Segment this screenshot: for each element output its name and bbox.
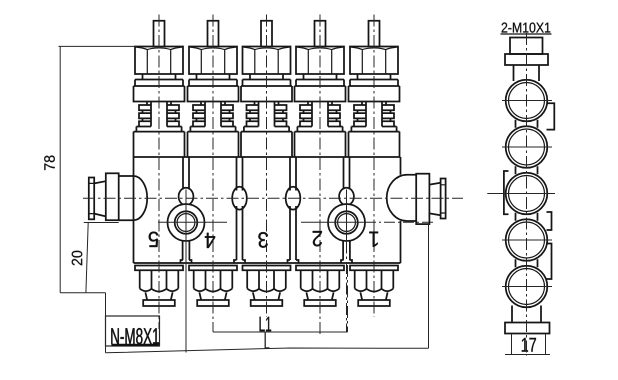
spindle teardrop at midpoint 4 [339,188,354,206]
text 78 (rotated) [44,156,55,171]
connector between L1 line and outer bracket [265,332,269,348]
crosshair port circle 1 [158,221,227,223]
port circle at midpoint 4 : outer [328,204,365,241]
neck between bores 2 and 3 [516,166,538,174]
midpoint 1 extension line below manifold [185,242,187,353]
text L1 [260,317,272,331]
left side fitting taper [94,181,106,216]
side view bore circle 4 outer [506,219,548,261]
side view bottom plate [505,323,550,334]
crosshair bore 5 [502,286,552,288]
neck between bores 1 and 2 [516,120,538,128]
crosshair port circle 2 [301,221,365,223]
right side fitting dome [387,175,417,221]
right side fitting flange lip lines [441,185,446,213]
side view bottom neck [512,306,541,323]
midpoint 4 centerline below manifold [346,242,348,333]
text 20 (rotated) [72,251,83,266]
port circle at midpoint 4 : middle ring [335,211,358,234]
manifold block [134,157,401,263]
dimension 78 extension line top [59,45,136,47]
valve unit 1 hex facets [351,47,398,74]
section number 2 (rotated 180) [313,231,322,246]
manifold right edge (broken at dome) [400,157,402,263]
spindle foot at midpoint 2 [234,260,245,263]
left side fitting flange [89,178,94,220]
side tab right upper [547,103,555,129]
dimension 17 extension lines [512,334,546,355]
valve unit 2 hex facets [297,47,344,74]
centerline valve 2 [319,15,321,336]
outer bracket riser to right fitting [428,224,430,348]
spindle foot at midpoint 1 [181,260,192,263]
leader vertical to N-M8X1 box [105,293,107,353]
crosshair bore 3 [487,193,555,195]
centerline valve 5 [158,15,160,330]
N-M8X1 label underline [111,344,158,346]
right side fitting flange [441,179,446,219]
neck between bores 4 and 5 [516,259,538,267]
port circle at midpoint 4 : inner [338,214,356,232]
crosshair bore 1 [502,100,552,102]
section number 4 (rotated 180) [205,233,215,248]
side view bore circle 1 inner [509,83,545,119]
port circle at midpoint 1 : inner [177,214,195,232]
spindle teardrop at midpoint 1 [179,188,194,206]
valve unit 2 body [295,21,346,157]
text 17 [522,338,536,352]
side view vertical centerline [526,33,528,356]
outer bracket dimension line [106,348,429,353]
centerline valve 4 [212,15,214,333]
valve unit 5 hex facets [136,47,183,74]
section divider / spindle stem pair at midpoint 3 [290,157,296,260]
L1 right riser [347,265,349,332]
neck between bores 3 and 4 [516,213,538,221]
side view bore circle 5 inner [509,269,545,305]
side view top boss [510,38,543,55]
side view bore circle 3 inner [509,176,545,212]
section divider / spindle stem pair at midpoint 1 [183,157,190,260]
valve unit 4 hex facets [190,47,237,74]
N-M8X1 text [111,328,159,344]
right side fitting taper [429,183,440,215]
side view top neck [514,65,540,81]
dimension 20 extension tick [84,222,119,224]
dimension 17 line [505,354,550,356]
side view bore circle 4 inner [509,222,545,258]
port circle at midpoint 1 : outer [168,204,205,241]
side view top plate [505,54,548,65]
right side fitting block [416,174,429,224]
L1 dimension line [213,331,348,333]
side view label 2-M10X1 [502,23,551,33]
N-M8X1 label box [106,316,160,346]
side tab right middle [547,212,552,230]
centerline valve 3 [266,15,268,318]
section number 5 (rotated 180) [149,232,159,247]
valve unit 4 body [188,21,239,157]
crosshair bore 4 [502,239,552,241]
outlet fitting 2 [296,266,344,307]
outlet fitting 1 [350,266,398,307]
crosshair bore 2 [502,146,552,148]
section divider / spindle stem pair at midpoint 4 [343,157,350,260]
side view bore circle 2 outer [506,126,548,168]
valve unit 3 hex facets [243,47,290,74]
dimension 78 line [59,46,61,292]
side view bore circle 3 outer [506,173,548,215]
side view bore circle 2 inner [509,129,545,165]
left side fitting block [106,173,119,220]
outlet fitting 3 [243,266,291,307]
section number 1 (rotated 180) [369,232,378,247]
main horizontal centerline [83,197,463,199]
centerline valve 1 [373,15,375,318]
spindle foot at midpoint 4 [341,260,352,263]
side view bore circle 5 outer [506,266,548,308]
valve unit 3 body [241,21,292,157]
valve unit 5 body [134,21,185,157]
spindle foot at midpoint 3 [288,260,299,263]
outlet fitting 5 [135,266,183,307]
side view bore circle 1 outer [506,80,548,122]
left side fitting dome [119,176,148,220]
spindle teardrop at midpoint 2 [232,187,247,210]
dimension 20 line [86,223,88,293]
section number 3 (rotated 180) [258,232,268,248]
outlet fitting 4 [189,266,237,307]
valve unit 1 body [349,21,400,157]
left side fitting flange lip lines [89,183,94,213]
side tab right lower [546,244,552,280]
section divider / spindle stem pair at midpoint 2 [237,157,243,260]
port circle at midpoint 1 : middle ring [175,211,198,234]
side tab left (outlet boss) [504,171,509,214]
spindle teardrop at midpoint 3 [286,187,301,210]
side view label underline [501,33,552,35]
bottom extension line shared by 78 and 20 [60,292,105,294]
